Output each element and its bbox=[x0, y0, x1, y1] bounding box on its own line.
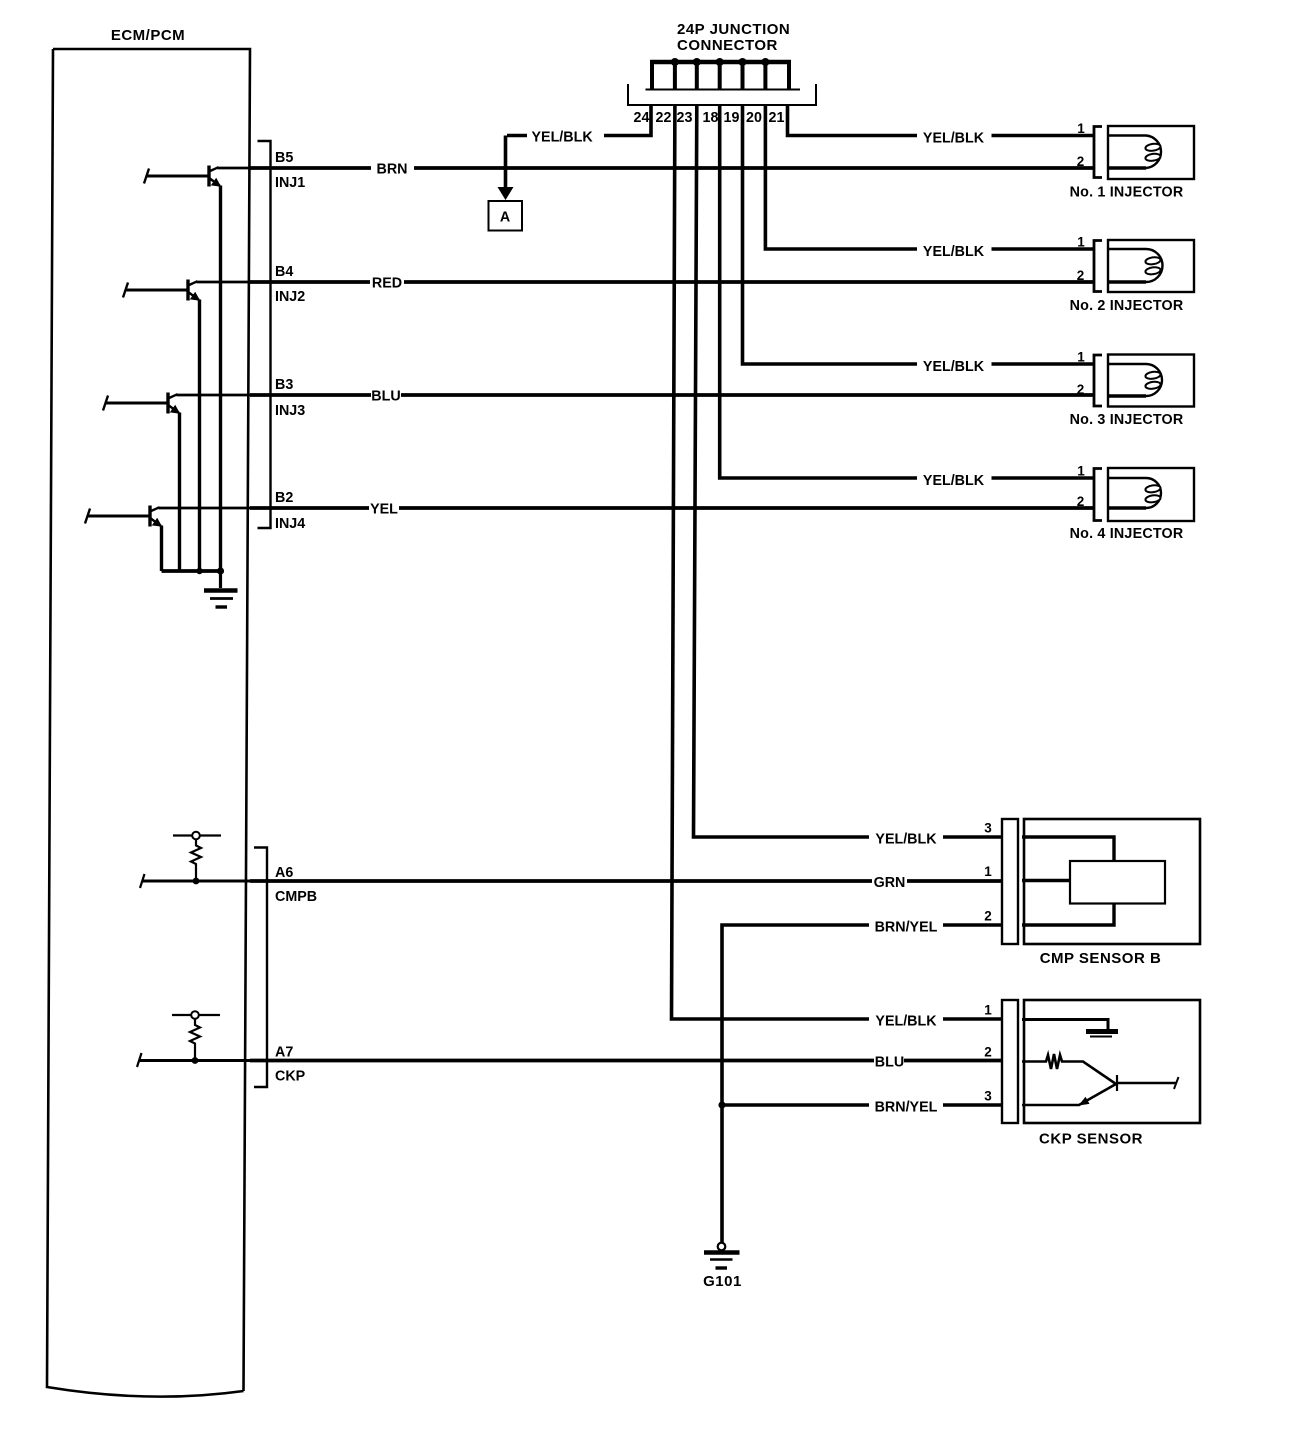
svg-text:2: 2 bbox=[984, 909, 992, 924]
ground (ECM internal) bbox=[204, 591, 238, 608]
wire pin 20 to injector 2 bbox=[765, 106, 1093, 249]
svg-text:GRN: GRN bbox=[874, 875, 906, 891]
injector 4 coil bbox=[1108, 478, 1161, 508]
wire BRN/YEL to CKP pin 3 bbox=[722, 1103, 1002, 1107]
injector 4 body bbox=[1108, 468, 1194, 521]
svg-text:BRN: BRN bbox=[377, 162, 408, 178]
svg-text:2: 2 bbox=[1077, 382, 1085, 397]
wire pin 19 to injector 3 bbox=[743, 106, 1094, 364]
svg-text:21: 21 bbox=[769, 110, 785, 126]
connector bracket B (rows B5-B2) bbox=[258, 141, 271, 528]
wire pin 22 to CKP sensor pin 1 bbox=[672, 106, 1003, 1019]
svg-text:YEL: YEL bbox=[370, 502, 398, 518]
svg-text:3: 3 bbox=[984, 1089, 992, 1104]
svg-text:BRN/YEL: BRN/YEL bbox=[875, 1100, 938, 1116]
24P junction connector symbol bbox=[628, 60, 816, 105]
CKP pickup junction tick bbox=[1116, 1075, 1118, 1091]
wire pin 24 to node A bbox=[506, 106, 652, 192]
svg-text:YEL/BLK: YEL/BLK bbox=[875, 1014, 937, 1030]
svg-text:22: 22 bbox=[656, 110, 672, 126]
svg-text:CONNECTOR: CONNECTOR bbox=[677, 37, 778, 54]
tick A6 stub end bbox=[140, 874, 145, 888]
svg-text:YEL/BLK: YEL/BLK bbox=[875, 832, 937, 848]
node BRN/YEL junction bbox=[718, 1101, 725, 1108]
injector 3 body bbox=[1108, 355, 1194, 407]
svg-text:INJ1: INJ1 bbox=[275, 175, 305, 191]
svg-text:24: 24 bbox=[634, 110, 650, 126]
CKP pin 2 internal wire with coil bbox=[1022, 1054, 1116, 1084]
svg-text:1: 1 bbox=[1077, 464, 1085, 479]
svg-text:YEL/BLK: YEL/BLK bbox=[923, 244, 985, 260]
wire BRN/YEL to CMP pin 2 and down to G101 bbox=[722, 925, 1002, 1243]
wire Q1 emitter drop bbox=[219, 186, 222, 572]
svg-text:23: 23 bbox=[677, 110, 693, 126]
node CMPB bbox=[193, 878, 200, 885]
CKP tail end tick bbox=[1174, 1077, 1179, 1089]
wire pin 21 to injector 1 bbox=[788, 106, 1094, 136]
svg-text:RED: RED bbox=[372, 276, 402, 292]
svg-text:1: 1 bbox=[984, 1003, 992, 1018]
node rail to ground bbox=[217, 567, 224, 574]
svg-text:BRN/YEL: BRN/YEL bbox=[875, 920, 938, 936]
wire pin 18 to injector 4 bbox=[720, 106, 1094, 478]
pin numbers 24 22 23 18 19 20 21 bbox=[634, 110, 785, 126]
CKP pickup tail bbox=[1117, 1082, 1176, 1085]
wire Q4 emitter drop bbox=[160, 526, 163, 572]
injector 3 connector bracket bbox=[1094, 355, 1102, 406]
svg-text:YEL/BLK: YEL/BLK bbox=[923, 131, 985, 147]
svg-text:CMPB: CMPB bbox=[275, 889, 317, 905]
svg-text:20: 20 bbox=[746, 110, 762, 126]
resistor R2 (CKP pull-up) bbox=[172, 1011, 220, 1060]
CKP pin 1 internal wire bbox=[1022, 1020, 1108, 1030]
injector 2 body bbox=[1108, 240, 1194, 292]
wire rail to ground bbox=[219, 571, 222, 588]
CMP sensor element bbox=[1070, 861, 1165, 904]
svg-text:YEL/BLK: YEL/BLK bbox=[923, 359, 985, 375]
CMP sensor connector bracket bbox=[1002, 819, 1018, 944]
wire Q3 collector to edge bbox=[177, 394, 251, 397]
node on rail bbox=[196, 568, 202, 574]
CMP sensor body bbox=[1024, 819, 1200, 944]
svg-text:19: 19 bbox=[724, 110, 740, 126]
injector 2 coil bbox=[1108, 249, 1163, 282]
CKP internal chassis ground bbox=[1086, 1029, 1118, 1034]
injector 2 connector bracket bbox=[1094, 241, 1102, 292]
CMP pin 1 internal wire bbox=[1022, 879, 1071, 882]
injector 1 coil bbox=[1108, 136, 1161, 169]
transistor Q3 (INJ3 driver) bbox=[103, 393, 180, 414]
CMP pin 2 internal wire bbox=[1022, 904, 1114, 926]
svg-text:No. 4 INJECTOR: No. 4 INJECTOR bbox=[1070, 526, 1184, 542]
svg-text:1: 1 bbox=[1077, 121, 1085, 136]
svg-text:3: 3 bbox=[984, 821, 992, 836]
wire Q3 emitter drop bbox=[178, 413, 181, 572]
tick A7 stub end bbox=[137, 1053, 142, 1067]
wire row A6 left stub bbox=[142, 880, 250, 883]
svg-text:18: 18 bbox=[703, 110, 719, 126]
svg-text:No. 2 INJECTOR: No. 2 INJECTOR bbox=[1070, 298, 1184, 314]
svg-text:1: 1 bbox=[1077, 350, 1085, 365]
transistor Q1 (INJ1 driver) bbox=[144, 166, 221, 187]
svg-text:YEL/BLK: YEL/BLK bbox=[532, 130, 594, 146]
injector 4 connector bracket bbox=[1094, 469, 1102, 521]
connector bracket A (rows A6-A7) bbox=[254, 848, 267, 1088]
wire Q2 collector to edge bbox=[197, 281, 251, 284]
resistor R1 (CMPB pull-up) bbox=[173, 832, 221, 881]
node CKP bbox=[192, 1057, 199, 1064]
svg-text:G101: G101 bbox=[703, 1273, 742, 1290]
svg-text:B2: B2 bbox=[275, 490, 293, 506]
svg-text:B4: B4 bbox=[275, 264, 293, 280]
wire row A7 left stub bbox=[139, 1059, 250, 1062]
svg-text:INJ2: INJ2 bbox=[275, 289, 305, 305]
wire pin 23 to CMP sensor pin 3 bbox=[694, 106, 1003, 837]
svg-text:24P JUNCTION: 24P JUNCTION bbox=[677, 21, 790, 38]
ECM/PCM box bbox=[47, 49, 250, 1397]
svg-text:A6: A6 bbox=[275, 865, 293, 881]
svg-text:2: 2 bbox=[1077, 268, 1085, 283]
transistor Q4 (INJ4 driver) bbox=[85, 506, 162, 527]
injector 1 connector bracket bbox=[1094, 127, 1102, 178]
svg-text:1: 1 bbox=[984, 864, 992, 879]
svg-text:1: 1 bbox=[1077, 235, 1085, 250]
junction bus dots bbox=[671, 58, 770, 66]
svg-text:CKP: CKP bbox=[275, 1069, 306, 1085]
CMP pin 3 internal wire bbox=[1022, 837, 1114, 861]
svg-text:CKP SENSOR: CKP SENSOR bbox=[1039, 1131, 1143, 1148]
wire row A6 GRN bbox=[250, 879, 1002, 883]
svg-text:A7: A7 bbox=[275, 1045, 293, 1061]
wire row A7 BLU bbox=[250, 1059, 1002, 1063]
wire row INJ2 RED bbox=[250, 280, 1094, 284]
CKP sensor connector bracket bbox=[1002, 1000, 1018, 1123]
wire Q1 collector to edge bbox=[218, 167, 251, 170]
svg-text:BLU: BLU bbox=[371, 389, 400, 405]
svg-text:INJ3: INJ3 bbox=[275, 403, 305, 419]
ground G101 bbox=[704, 1243, 740, 1268]
wire common emitter rail bbox=[162, 569, 221, 573]
wire row INJ4 YEL bbox=[250, 506, 1094, 510]
wire Q2 emitter drop bbox=[198, 300, 201, 572]
svg-text:A: A bbox=[500, 210, 510, 226]
svg-text:2: 2 bbox=[984, 1045, 992, 1060]
CKP pickup arrowhead bbox=[1079, 1097, 1090, 1106]
svg-text:YEL/BLK: YEL/BLK bbox=[923, 473, 985, 489]
svg-text:CMP SENSOR B: CMP SENSOR B bbox=[1040, 950, 1162, 967]
svg-text:B3: B3 bbox=[275, 377, 293, 393]
wire row INJ1 BRN bbox=[250, 166, 1094, 170]
injector 1 body bbox=[1108, 126, 1194, 179]
svg-text:INJ4: INJ4 bbox=[275, 516, 305, 532]
svg-text:2: 2 bbox=[1077, 154, 1085, 169]
svg-text:BLU: BLU bbox=[875, 1055, 904, 1071]
injector 3 coil bbox=[1108, 364, 1162, 396]
wire row INJ3 BLU bbox=[250, 393, 1094, 397]
svg-text:ECM/PCM: ECM/PCM bbox=[111, 27, 185, 44]
node A box bbox=[489, 201, 523, 231]
transistor Q2 (INJ2 driver) bbox=[123, 280, 200, 301]
svg-text:No. 1 INJECTOR: No. 1 INJECTOR bbox=[1070, 185, 1184, 201]
arrow to node A bbox=[498, 187, 514, 200]
wire Q4 collector to edge bbox=[159, 507, 251, 510]
CKP pin 3 internal wire bbox=[1022, 1084, 1116, 1105]
svg-text:2: 2 bbox=[1077, 494, 1085, 509]
CKP sensor body bbox=[1024, 1000, 1200, 1123]
svg-text:B5: B5 bbox=[275, 150, 293, 166]
svg-text:No. 3 INJECTOR: No. 3 INJECTOR bbox=[1070, 412, 1184, 428]
